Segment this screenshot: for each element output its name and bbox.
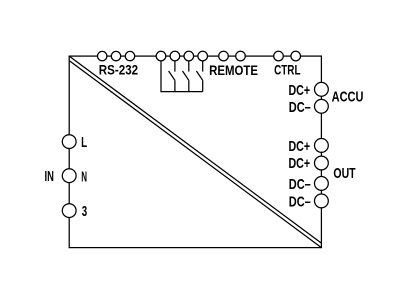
switch S1 xyxy=(169,61,175,92)
svg-text:DC–: DC– xyxy=(289,193,311,210)
terminal CTRL pin 2 xyxy=(291,51,301,61)
svg-text:N: N xyxy=(81,168,87,185)
terminal OUT DC+ 1 xyxy=(315,139,329,153)
terminal signal pin 1 xyxy=(156,51,166,61)
terminal RS-232 pin 3 xyxy=(125,51,134,60)
diagonal separator line upper xyxy=(69,56,321,243)
switch S2 xyxy=(183,61,189,92)
svg-text:3: 3 xyxy=(82,203,87,220)
switch S3 xyxy=(196,61,202,92)
svg-text:IN: IN xyxy=(45,168,54,185)
svg-text:DC+: DC+ xyxy=(289,82,311,99)
terminal ACCU DC- xyxy=(315,99,329,113)
converter body outline U1 xyxy=(69,56,321,248)
relay contact bus wire xyxy=(161,61,203,92)
terminal 3 xyxy=(62,204,76,218)
terminal OUT DC- 1 xyxy=(315,177,329,191)
terminal RS-232 pin 2 xyxy=(111,51,120,60)
terminal REMOTE pin 1 xyxy=(219,51,229,61)
terminal signal pin 2 xyxy=(170,51,180,61)
diagonal separator line lower xyxy=(69,61,321,248)
svg-text:CTRL: CTRL xyxy=(274,62,301,78)
terminal OUT DC- 2 xyxy=(315,194,329,208)
svg-text:DC+: DC+ xyxy=(289,138,311,155)
terminal RS-232 pin 1 xyxy=(98,51,107,60)
terminal CTRL pin 1 xyxy=(274,51,284,61)
svg-text:DC–: DC– xyxy=(289,99,311,116)
terminal L xyxy=(62,135,76,149)
svg-text:REMOTE: REMOTE xyxy=(209,62,258,78)
terminal signal pin 4 xyxy=(198,51,208,61)
svg-text:OUT: OUT xyxy=(333,165,355,182)
terminal signal pin 3 xyxy=(184,51,194,61)
terminal N xyxy=(62,169,76,183)
terminal OUT DC+ 2 xyxy=(315,156,329,170)
terminal REMOTE pin 2 xyxy=(236,51,246,61)
svg-text:L: L xyxy=(81,134,87,151)
svg-text:ACCU: ACCU xyxy=(332,89,364,106)
svg-text:DC+: DC+ xyxy=(289,155,311,172)
svg-text:DC–: DC– xyxy=(289,176,311,193)
terminal ACCU DC+ xyxy=(315,82,329,96)
svg-text:RS-232: RS-232 xyxy=(99,62,138,78)
